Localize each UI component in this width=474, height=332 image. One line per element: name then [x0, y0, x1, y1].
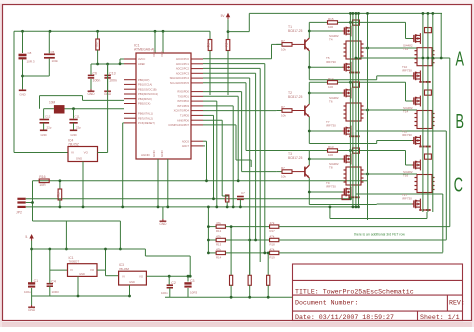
svg-text:PB4(MISO): PB4(MISO) [138, 97, 152, 101]
svg-text:47k: 47k [216, 235, 221, 239]
svg-text:R4: R4 [224, 43, 228, 48]
svg-text:VO: VO [84, 151, 89, 155]
svg-text:IRF730: IRF730 [402, 69, 412, 73]
svg-text:TITLE: TowerPro25aEscSchemati: TITLE: TowerPro25aEscSchematic [295, 288, 414, 295]
svg-text:R7: R7 [281, 105, 285, 109]
svg-text:47k: 47k [216, 248, 221, 252]
svg-text:R7: R7 [281, 39, 285, 43]
svg-text:C6: C6 [93, 71, 98, 75]
svg-text:47k: 47k [216, 221, 221, 225]
svg-text:GND: GND [79, 272, 85, 276]
svg-text:R9: R9 [94, 43, 98, 48]
svg-text:IRF730: IRF730 [326, 185, 336, 189]
svg-text:T16: T16 [403, 174, 409, 178]
svg-text:AREF: AREF [138, 62, 146, 66]
svg-text:78L05Z: 78L05Z [68, 142, 79, 146]
svg-text:R14: R14 [328, 77, 334, 81]
svg-text:ADC6: ADC6 [182, 139, 190, 143]
svg-text:R16: R16 [39, 175, 45, 179]
svg-text:VCC: VCC [160, 50, 164, 57]
svg-text:VCC: VCC [152, 50, 156, 57]
svg-text:REV:: REV: [449, 300, 465, 307]
svg-text:VI: VI [71, 151, 74, 155]
svg-text:GND: GND [159, 222, 167, 226]
svg-text:C8: C8 [28, 51, 32, 55]
svg-text:100n: 100n [109, 79, 117, 83]
svg-text:JP2: JP2 [16, 211, 22, 215]
svg-text:AIN0/PD6: AIN0/PD6 [177, 118, 189, 122]
svg-text:GND: GND [152, 150, 156, 158]
svg-text:SDA/ADC4/PC4: SDA/ADC4/PC4 [170, 76, 190, 80]
svg-text:BC817-25: BC817-25 [288, 29, 303, 33]
svg-text:10R.3: 10R.3 [27, 60, 35, 64]
svg-text:10M: 10M [49, 101, 56, 105]
svg-text:GND: GND [87, 92, 95, 96]
svg-text:GND: GND [40, 133, 46, 137]
svg-text:GND: GND [160, 150, 164, 158]
svg-text:Document Number:: Document Number: [295, 300, 358, 307]
svg-text:ADC0/PC0: ADC0/PC0 [176, 57, 190, 61]
svg-text:C1: C1 [34, 279, 39, 283]
svg-text:COMP/AIN1/PD7: COMP/AIN1/PD7 [168, 123, 189, 127]
svg-text:PB0(ICP): PB0(ICP) [138, 78, 149, 82]
svg-text:PB7(XTAL2): PB7(XTAL2) [138, 116, 153, 120]
svg-text:INT1/PD3: INT1/PD3 [177, 104, 189, 108]
svg-text:R7: R7 [281, 166, 285, 170]
svg-text:GND: GND [129, 280, 135, 284]
svg-text:ADC3/PC3: ADC3/PC3 [176, 71, 190, 75]
svg-text:47k: 47k [270, 221, 275, 225]
svg-text:PB2(SS/OC1B): PB2(SS/OC1B) [138, 87, 157, 91]
svg-text:R12: R12 [216, 229, 222, 233]
svg-text:PB5(SCK): PB5(SCK) [138, 102, 151, 106]
svg-text:5.: 5. [25, 235, 28, 239]
svg-text:PB1(OC1A): PB1(OC1A) [138, 83, 152, 87]
svg-text:10k: 10k [281, 47, 286, 51]
svg-text:47k: 47k [270, 235, 275, 239]
svg-text:Date: 03/11/2007 18:59:27: Date: 03/11/2007 18:59:27 [295, 314, 394, 321]
svg-text:47k: 47k [270, 248, 275, 252]
svg-text:XCK/T0/PD4: XCK/T0/PD4 [174, 109, 190, 113]
svg-text:C13: C13 [109, 71, 115, 75]
svg-text:78L05Z: 78L05Z [119, 267, 129, 271]
svg-text:22p: 22p [76, 126, 81, 130]
svg-text:100n: 100n [161, 291, 168, 295]
svg-text:R17: R17 [270, 229, 276, 233]
svg-text:100: 100 [328, 153, 333, 157]
svg-text:GND: GND [76, 157, 82, 161]
svg-text:R1: R1 [56, 193, 60, 198]
svg-text:PB6(XTAL1): PB6(XTAL1) [138, 112, 153, 116]
svg-text:T14: T14 [403, 110, 409, 114]
svg-text:C12: C12 [45, 115, 51, 119]
svg-text:T4: T4 [329, 38, 333, 42]
svg-text:RXD/PD0: RXD/PD0 [177, 90, 189, 94]
svg-text:C4: C4 [51, 280, 56, 284]
svg-text:100n: 100n [93, 79, 101, 83]
svg-text:ADC7: ADC7 [182, 144, 190, 148]
svg-text:T1/PD5: T1/PD5 [180, 114, 190, 118]
svg-text:IRF730: IRF730 [326, 124, 336, 128]
svg-text:100: 100 [328, 25, 333, 29]
svg-text:C3: C3 [190, 279, 195, 283]
svg-text:R18: R18 [270, 243, 276, 247]
svg-text:7805DT: 7805DT [69, 260, 80, 264]
svg-text:C: C [454, 173, 463, 196]
svg-text:IRF730: IRF730 [402, 197, 412, 201]
svg-text:100u: 100u [24, 290, 31, 294]
svg-text:GND: GND [28, 308, 36, 312]
svg-text:100: 100 [328, 85, 333, 89]
svg-text:C11: C11 [75, 115, 80, 119]
svg-text:R19: R19 [270, 256, 276, 260]
svg-text:AGND: AGND [141, 153, 151, 157]
svg-text:VI: VI [70, 268, 73, 272]
svg-text:GND: GND [70, 133, 76, 137]
svg-text:ADC1/PC1: ADC1/PC1 [176, 62, 190, 66]
svg-text:IRF730: IRF730 [402, 133, 412, 137]
svg-text:100n: 100n [52, 59, 59, 63]
svg-text:R2: R2 [224, 197, 228, 202]
svg-text:R5: R5 [206, 43, 210, 48]
svg-text:Sheet: 1/1: Sheet: 1/1 [420, 314, 460, 321]
svg-text:BC817-25: BC817-25 [288, 156, 303, 160]
svg-text:SCL/ADC5/PC5: SCL/ADC5/PC5 [170, 81, 190, 85]
svg-text:22p: 22p [47, 126, 52, 130]
svg-text:T6: T6 [329, 100, 333, 104]
svg-text:INT0/PD2: INT0/PD2 [177, 99, 189, 103]
svg-text:10k: 10k [281, 114, 286, 118]
svg-text:R13: R13 [216, 243, 222, 247]
svg-text:BC817-25: BC817-25 [288, 95, 303, 99]
svg-text:C5: C5 [51, 50, 55, 54]
svg-text:TXD/PD1: TXD/PD1 [178, 94, 190, 98]
svg-text:ADC2/PC2: ADC2/PC2 [176, 67, 190, 71]
svg-text:T12: T12 [403, 47, 409, 51]
svg-text:GND: GND [19, 93, 25, 97]
svg-text:B: B [455, 110, 463, 133]
svg-text:10k: 10k [281, 175, 286, 179]
svg-text:10R3: 10R3 [52, 290, 60, 294]
svg-text:R15: R15 [328, 17, 334, 21]
svg-text:PC6(/RESET): PC6(/RESET) [138, 121, 155, 125]
svg-text:C7: C7 [241, 191, 245, 195]
svg-text:T8: T8 [329, 166, 333, 170]
svg-text:PB3(MOSI/OC2): PB3(MOSI/OC2) [138, 92, 158, 96]
svg-text:IRF730: IRF730 [326, 60, 336, 64]
svg-text:AVCC: AVCC [138, 57, 145, 61]
svg-text:10R3: 10R3 [190, 291, 198, 295]
svg-text:A: A [455, 47, 464, 70]
svg-text:R14: R14 [216, 256, 222, 260]
svg-text:C2: C2 [171, 281, 176, 285]
svg-text:10R: 10R [39, 183, 46, 187]
svg-text:VI: VI [122, 274, 125, 278]
svg-text:R13: R13 [328, 145, 334, 149]
svg-text:there is an additional 3rd FET: there is an additional 3rd FET row [354, 233, 405, 237]
